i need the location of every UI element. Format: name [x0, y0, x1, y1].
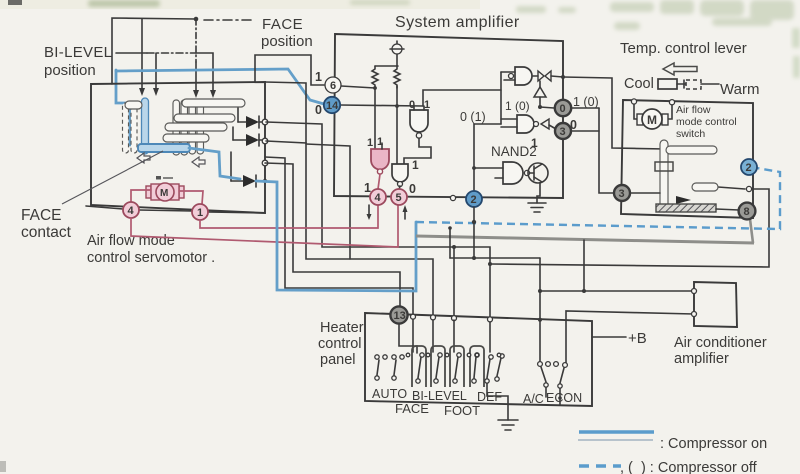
resistor R1 — [372, 66, 378, 88]
bleed-through green marks top — [88, 0, 160, 7]
wire BI-LEVEL to right arm — [196, 53, 213, 90]
contact strip 4 — [173, 100, 180, 155]
bleed-through green marks right edge — [792, 28, 800, 78]
svg-text:AUTO: AUTO — [372, 387, 407, 401]
wire terminal2 up to NAND feed rail — [474, 124, 501, 191]
buffer pair bowtie — [533, 71, 563, 81]
svg-text:0: 0 — [409, 182, 416, 196]
ground below panel — [498, 404, 518, 430]
node on 14 rail — [395, 104, 399, 108]
wire BI-LEVEL left arm down — [155, 53, 157, 88]
air conditioner amplifier box — [694, 282, 737, 327]
svg-text:switch: switch — [676, 128, 705, 140]
wire panel drop b — [432, 320, 434, 352]
diode D1 — [238, 108, 263, 128]
svg-text:13: 13 — [394, 310, 406, 322]
wire mode3 into box — [630, 192, 660, 194]
wire blue feed top — [116, 69, 324, 104]
arrowhead contact arm 1 — [139, 88, 145, 96]
switch blade channel4 — [472, 353, 479, 383]
mode switch slider strip — [660, 140, 668, 212]
label Air conditioner amplifier — [674, 335, 767, 367]
wire motor lead 1 — [634, 104, 638, 119]
wire 258 rail — [450, 257, 540, 259]
svg-text:3: 3 — [619, 188, 625, 200]
svg-text:FACE: FACE — [395, 401, 429, 416]
node R1 bottom — [373, 86, 377, 90]
svg-text:FOOT: FOOT — [444, 403, 480, 418]
wire terminal0 right — [571, 107, 599, 109]
wire blue diode3 to junction — [256, 181, 416, 291]
arrow below amp terminal 5 — [403, 205, 408, 219]
heater control panel box — [365, 313, 592, 406]
wire motor lead 2 — [667, 105, 672, 119]
wire U3 out to terminal 5 — [399, 186, 400, 190]
contact bar b5 — [163, 134, 209, 142]
wire box edge extension — [265, 82, 306, 143]
svg-text:mode control: mode control — [676, 116, 737, 128]
wire line DEF to air-con amp node — [490, 189, 769, 267]
wire terminal14 rail — [340, 105, 423, 106]
svg-text:M: M — [647, 113, 657, 127]
label Heater control panel — [318, 320, 364, 368]
panel terminal circle d — [488, 317, 493, 322]
svg-text:control servomotor .: control servomotor . — [87, 250, 215, 266]
contact strip 5 — [181, 100, 188, 155]
svg-text:6: 6 — [330, 80, 336, 92]
inverter triangle up — [534, 81, 546, 107]
switch AUTO 1 — [375, 355, 387, 380]
lever link to Warm — [701, 83, 719, 85]
svg-text:, ( ) : Compressor off: , ( ) : Compressor off — [620, 460, 758, 474]
wire FACE position top loop — [112, 18, 196, 84]
wire blue drop to contact strip — [116, 70, 130, 145]
terminal circle amp5 pink — [391, 189, 407, 205]
svg-text:A/C: A/C — [523, 392, 544, 406]
inverter left-facing with bubble — [541, 119, 556, 129]
svg-text:NAND2: NAND2 — [491, 144, 537, 159]
terminal circle amp3 gray — [555, 123, 571, 139]
phi bias symbol — [390, 41, 404, 66]
wire BI-LEVEL horizontal — [116, 52, 147, 54]
resistor R2 — [394, 66, 400, 88]
terminal circle 4 servo — [123, 202, 139, 218]
AC amp terminal 1 — [692, 289, 697, 294]
node AC feed on panel edge — [538, 318, 542, 322]
switch blade BI-LEVEL 1 — [416, 353, 424, 383]
svg-text:FACE: FACE — [21, 207, 61, 224]
svg-text:contact: contact — [21, 224, 72, 241]
wire pink motor loop left — [131, 190, 151, 202]
slider hatched bar — [656, 204, 716, 212]
terminal circle 1 servo — [192, 204, 208, 220]
U1 input stubs — [414, 106, 424, 110]
node at FACE loop corner — [194, 17, 199, 22]
wire panel drop a — [412, 319, 414, 352]
terminal circle mode3 gray — [614, 185, 630, 201]
NAND gate U6 — [474, 162, 530, 184]
svg-text:amplifier: amplifier — [674, 351, 729, 367]
svg-text:FACE: FACE — [262, 16, 303, 33]
switch channel BI-LEVEL 2 — [431, 346, 445, 387]
panel terminal circle c — [452, 316, 457, 321]
svg-text:4: 4 — [128, 205, 135, 217]
svg-text:Heater: Heater — [320, 320, 364, 336]
svg-text:1: 1 — [367, 137, 373, 149]
diode D2 — [233, 127, 263, 146]
svg-text:2: 2 — [746, 162, 752, 174]
legend compressor off dashed — [579, 464, 621, 467]
svg-text:2: 2 — [471, 194, 477, 206]
arrowhead contact arm 3 — [193, 90, 199, 98]
wire black from contact box to amp terminal 6 — [255, 55, 324, 85]
svg-text:position: position — [261, 33, 313, 50]
svg-text:0: 0 — [560, 103, 566, 115]
wire FACE arm inner — [141, 19, 143, 88]
svg-text:position: position — [44, 62, 96, 79]
node on 291 rail — [538, 289, 542, 293]
svg-text:0 (1): 0 (1) — [460, 110, 486, 124]
wire fan f1 to panel FACE switch — [266, 122, 490, 322]
NAND gate U2 pink — [371, 149, 389, 170]
ground under amplifier — [528, 203, 546, 212]
terminal circle 6 — [325, 77, 341, 93]
wire black servo row mid — [139, 210, 192, 211]
panel terminal circle b — [431, 315, 436, 320]
wire U1 output zigzag to U3 — [404, 138, 431, 164]
svg-text:Cool: Cool — [624, 76, 654, 92]
servo motor M body — [146, 183, 184, 201]
svg-text:5: 5 — [396, 192, 402, 204]
wire +B tap — [592, 336, 626, 338]
wire node to terminal 0 — [540, 107, 554, 108]
svg-text:14: 14 — [326, 100, 339, 112]
arrowhead contact arm 2 — [153, 88, 159, 96]
svg-text:8: 8 — [744, 206, 750, 218]
U1 output bubble — [416, 133, 421, 138]
svg-text:0: 0 — [570, 118, 577, 132]
transistor Q1 — [528, 163, 548, 183]
wire amp to switchbox bar1 — [563, 77, 666, 149]
svg-text:+B: +B — [628, 330, 647, 347]
node 584 — [582, 289, 586, 293]
U3 output bubble — [398, 182, 403, 187]
svg-text:panel: panel — [320, 352, 355, 368]
wire pink motor loop right — [179, 191, 203, 204]
terminal circle mode2 blue — [741, 159, 757, 175]
slider contact bar 2 — [692, 183, 718, 191]
svg-text:0: 0 — [409, 99, 415, 111]
contact bar b1 — [125, 101, 142, 109]
NAND gate U4 top — [501, 67, 532, 85]
wire blue contact bar exit — [189, 148, 240, 179]
highlighted blue contact bar — [138, 144, 190, 152]
wire gray drop from circle 8 — [750, 219, 753, 243]
contact strip dashed 2 — [131, 103, 137, 153]
wire stub up from 258 rail — [449, 228, 451, 258]
junction circle D1 out — [262, 119, 268, 125]
wire R1 down to pink gate — [374, 88, 376, 149]
svg-text:1: 1 — [424, 99, 430, 111]
lever link — [677, 80, 686, 88]
slider arrow — [676, 196, 691, 204]
switch channel FOOT — [450, 346, 464, 387]
terminal circle 14 blue — [324, 97, 340, 113]
wire terminal2 down — [473, 207, 475, 258]
wire 291 rail to AC amp — [540, 290, 694, 292]
wire fan f2 to panel BI-LEVEL — [266, 141, 433, 315]
contact strip solid 3 — [142, 98, 149, 154]
terminal circle mode8 gray — [739, 203, 756, 220]
svg-text:1: 1 — [377, 136, 383, 148]
NAND gate U3 small — [392, 164, 408, 182]
FACE contact box outline — [91, 82, 265, 213]
NAND gate U1 — [410, 110, 428, 132]
label Air flow mode control switch — [676, 104, 737, 140]
svg-text:1: 1 — [197, 207, 203, 219]
lever dashed box — [686, 80, 701, 89]
node below triangle — [538, 105, 542, 109]
terminal circle node right edge — [746, 186, 751, 191]
leader dash-dot to FACE label — [204, 19, 254, 21]
wire pink 1-to-amp4 — [200, 205, 378, 228]
AC amp terminal 2 — [692, 312, 697, 317]
svg-text:1: 1 — [315, 70, 322, 84]
wire 584 up to gray rail — [583, 240, 585, 291]
wire hatched bar to 8 — [716, 209, 739, 210]
node on 258 rail — [472, 256, 476, 260]
wire panel drop d — [489, 322, 491, 352]
svg-text:1: 1 — [412, 158, 419, 172]
switch blade BI-LEVEL 2 — [434, 353, 442, 383]
contact bar b3 — [174, 114, 235, 122]
dark corner mark top-left — [8, 0, 22, 5]
contact bar b4 — [165, 123, 227, 131]
terminal circle 13 gray — [390, 306, 407, 323]
svg-text:M: M — [160, 188, 168, 199]
wire 13 to BI-LEVEL pivot — [399, 324, 417, 353]
svg-text:3: 3 — [560, 126, 566, 138]
switch blade FOOT — [453, 353, 461, 383]
terminal circle amp4 pink — [370, 189, 386, 205]
legend compressor on line — [578, 432, 654, 440]
node dashed crossing — [472, 220, 476, 224]
wire R2 down to NAND3 — [396, 86, 398, 164]
svg-text:Warm: Warm — [720, 81, 759, 98]
wire resistor top rail — [375, 65, 398, 67]
wire down to mode switch 3 — [599, 108, 614, 193]
faint mark bottom-left — [0, 461, 6, 472]
wire FOOT tap off rail — [453, 247, 455, 316]
svg-text:4: 4 — [375, 192, 382, 204]
system amplifier box — [334, 34, 563, 198]
hollow arrow lever direction — [663, 63, 697, 75]
NAND gate U5 — [501, 115, 539, 133]
node amp right edge top — [561, 75, 565, 79]
wire DEF bottom to ground bus — [487, 383, 508, 404]
node D3 out — [263, 179, 267, 183]
small direction mark above motor — [156, 176, 173, 180]
wire mid vertical to rail — [306, 144, 350, 259]
air flow mode switch box — [621, 100, 753, 218]
svg-text:Temp. control lever: Temp. control lever — [620, 40, 747, 57]
mode switch motor M — [637, 109, 668, 129]
contact strip 7 — [197, 100, 204, 154]
arrow below amp terminal 4 — [367, 205, 372, 220]
switch channel BI-LEVEL 1 — [412, 346, 426, 387]
wire terminal3 right — [571, 130, 599, 132]
switch A/C — [538, 362, 568, 389]
hollow arrow pointer 2 — [192, 157, 205, 167]
wire dashed vertical from FACE node — [195, 19, 197, 62]
svg-text:1 (0): 1 (0) — [573, 95, 599, 109]
wire black servo row right — [208, 212, 265, 213]
U2 input stub right — [381, 143, 383, 149]
wire panel drop c — [453, 320, 455, 352]
wire gray thick 8-line — [416, 236, 754, 243]
wire 14 rail up to NAND feed — [423, 90, 501, 106]
svg-text:0: 0 — [315, 103, 322, 117]
top scan band artifact — [0, 0, 480, 9]
terminal circle amp0 gray — [555, 100, 571, 116]
switch blade DEF 2 — [495, 354, 504, 381]
wire contact arm FACE right — [195, 62, 197, 90]
slider bracket — [655, 162, 673, 171]
wire fan f4 to panel FOOT — [265, 157, 413, 315]
contact strip 6 — [189, 100, 196, 154]
node stub top — [448, 226, 452, 230]
extra contact circles row — [406, 353, 501, 357]
wire fan f3 to terminal 13 — [265, 163, 400, 306]
arrowhead contact arm 4 — [210, 90, 216, 98]
switch channel DEF — [470, 346, 484, 387]
lever solid box — [658, 79, 677, 89]
diode D3 — [231, 152, 256, 187]
svg-text:BI-LEVEL: BI-LEVEL — [44, 44, 112, 61]
wire AC bottom stubs — [546, 387, 560, 404]
svg-text:control: control — [318, 336, 362, 352]
wire U2 out to terminal 4 — [378, 174, 380, 189]
wire pink 4-to-amp5 — [131, 205, 398, 247]
wire black servo row left — [86, 206, 123, 209]
wire NAND feed vertical — [500, 72, 502, 124]
terminal circle motor lead 2 — [669, 100, 674, 105]
hollow arrow pointer 1 — [137, 153, 150, 163]
svg-text:DEF: DEF — [477, 390, 502, 404]
contact strip dashed 1 — [123, 103, 129, 153]
wire blue dashed compressor-off — [416, 168, 780, 229]
svg-text:Air conditioner: Air conditioner — [674, 335, 767, 351]
U2 output bubble — [377, 169, 382, 174]
node DEF junction — [488, 262, 492, 266]
terminal circle amp2 blue — [466, 191, 482, 207]
node FOOT tap — [452, 245, 456, 249]
switch blade DEF — [485, 355, 493, 383]
switch AUTO 2 — [392, 355, 404, 380]
terminal circle on amp rail — [450, 195, 455, 200]
svg-text:1 (0): 1 (0) — [505, 99, 530, 113]
svg-text:1: 1 — [364, 181, 371, 195]
svg-text:Air flow: Air flow — [676, 104, 711, 116]
slider contact bar 1 — [666, 146, 717, 154]
terminal circle motor lead 1 — [631, 99, 636, 104]
wire transistor to ground — [537, 183, 540, 203]
wire ECON to AC amp — [566, 311, 694, 364]
wire AC switch feed vertical — [539, 258, 541, 364]
junction circle D2 out — [262, 138, 268, 144]
svg-text:ECON: ECON — [546, 391, 582, 405]
wire bar2 to node — [718, 187, 745, 189]
pointer line FACE contact — [62, 151, 163, 204]
node AC bottom — [558, 396, 562, 400]
svg-text:: Compressor on: : Compressor on — [660, 436, 767, 452]
node at terminal2 feed — [472, 166, 476, 170]
wire terminal6 to R1 — [341, 86, 375, 88]
junction circle mid edge — [262, 160, 268, 166]
svg-text:System amplifier: System amplifier — [395, 14, 520, 31]
contact bar b2 — [182, 99, 245, 107]
panel terminal circle a — [411, 314, 416, 319]
wire BI-LEVEL dash-dot mid — [147, 52, 196, 54]
